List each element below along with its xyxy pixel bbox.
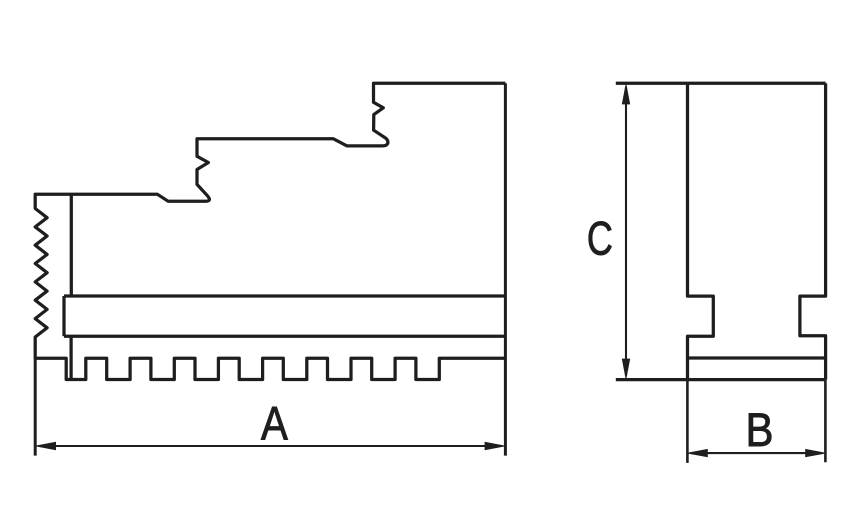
front view right profile with notch xyxy=(800,83,826,379)
extension line B left xyxy=(686,380,689,463)
dimension line A xyxy=(40,445,501,447)
guide band left edge xyxy=(62,296,65,336)
jaw front-view outline (right view) top line with C extension xyxy=(616,82,826,85)
svg-text:C: C xyxy=(587,212,613,265)
arrowhead A left xyxy=(36,442,55,449)
arrowhead C top xyxy=(622,85,629,104)
guide band top line xyxy=(64,294,505,297)
right edge of left view with extension for dimension A xyxy=(504,83,507,455)
lower internal vertical xyxy=(69,336,72,379)
svg-text:B: B xyxy=(746,403,774,456)
svg-text:A: A xyxy=(261,396,289,449)
dimension line B xyxy=(691,452,822,454)
extension line B right xyxy=(824,380,827,463)
arrowhead B right xyxy=(806,450,825,457)
left edge extension line for dimension A xyxy=(34,358,37,455)
serration top line (front view) xyxy=(688,356,826,359)
arrowhead A right xyxy=(485,442,504,449)
front view left profile with notch xyxy=(688,83,714,379)
dimension line C xyxy=(625,87,627,376)
front view bottom line with C extension xyxy=(616,378,826,381)
arrowhead C bottom xyxy=(622,359,629,378)
jaw side-view outline (left view) xyxy=(35,83,505,379)
arrowhead B left xyxy=(688,450,707,457)
serration root line (upper internal vertical) xyxy=(70,194,73,296)
guide band bottom line xyxy=(64,335,505,338)
